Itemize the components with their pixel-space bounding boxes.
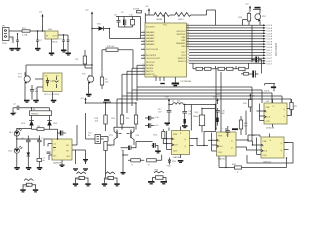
wire mid verticals down xyxy=(86,113,109,164)
resistor R21 xyxy=(126,115,138,129)
transistor VT7 top-right xyxy=(255,10,267,23)
svg-text:12: 12 xyxy=(142,70,144,72)
wire L1 rail xyxy=(169,105,215,133)
bus labels xyxy=(267,25,273,65)
flip-flop DD5 internals xyxy=(261,140,282,157)
capacitor C18b black xyxy=(184,117,186,127)
svg-text:TL/PS: TL/PS xyxy=(264,91,270,93)
capacitor C18 xyxy=(182,111,192,117)
svg-text:DL/AC88: DL/AC88 xyxy=(266,127,275,130)
resistor R12 horizontal xyxy=(102,46,133,72)
svg-text:2: 2 xyxy=(143,31,144,33)
svg-text:RB7/PGD: RB7/PGD xyxy=(177,34,186,36)
svg-text:36: 36 xyxy=(187,32,189,34)
svg-text:220V: 220V xyxy=(2,43,7,45)
ground under C26 xyxy=(155,150,161,153)
+5V arrow top-middle xyxy=(85,10,93,29)
svg-text:6: 6 xyxy=(143,43,144,45)
svg-text:33: 33 xyxy=(187,24,189,26)
svg-text:VDD: VDD xyxy=(167,166,172,168)
diode VD7 xyxy=(27,153,31,157)
svg-text:78L05: 78L05 xyxy=(52,42,58,44)
svg-text:240AF: 240AF xyxy=(105,178,112,181)
receiver box B2 xyxy=(88,133,101,144)
svg-text:RA2/AN2: RA2/AN2 xyxy=(146,37,155,40)
DD3 left feeders xyxy=(208,133,212,152)
capacitor C5 xyxy=(30,85,39,100)
svg-text:10k: 10k xyxy=(105,82,108,84)
flip-flop DD2 internals xyxy=(172,133,187,153)
ground under DA1 xyxy=(49,39,55,56)
svg-text:OSC: OSC xyxy=(153,75,158,77)
wire VCC feed at MCU top xyxy=(164,15,166,23)
long wire B xyxy=(132,68,262,106)
long wire D xyxy=(122,74,282,120)
fuse FU1 xyxy=(22,30,30,32)
svg-text:PRE: PRE xyxy=(173,134,178,136)
optocoupler U1 internals xyxy=(45,76,60,89)
flip-flop DD3 internals xyxy=(217,134,233,154)
svg-text:RD/RC4: RD/RC4 xyxy=(178,61,186,63)
transistor VT1 xyxy=(18,72,30,85)
wire HL1 chain down xyxy=(17,139,40,167)
svg-text:4n7/63: 4n7/63 xyxy=(133,9,140,11)
capacitor C2 xyxy=(36,40,42,48)
voltage regulator DA1 body xyxy=(45,31,58,39)
svg-text:CLK: CLK xyxy=(266,117,271,119)
svg-text:VCC: VCC xyxy=(163,24,168,26)
ground under C1 xyxy=(15,48,21,51)
ground under C3 xyxy=(61,50,67,53)
wire DD2-DD3 link xyxy=(194,132,216,146)
capacitor C10 xyxy=(129,15,135,28)
DD2 left feeders xyxy=(163,128,169,150)
bus wires from MCU to right connector xyxy=(187,25,264,63)
optocoupler U1 body xyxy=(43,73,62,92)
+5V arrow above R31 xyxy=(249,93,255,97)
svg-text:OSC1/CLKIN: OSC1/CLKIN xyxy=(146,49,158,51)
svg-text:RB1/RX: RB1/RX xyxy=(146,68,154,70)
capacitor C12 polarized mid xyxy=(103,99,111,102)
svg-text:35: 35 xyxy=(187,29,189,31)
svg-text:RA4/AN4: RA4/AN4 xyxy=(146,43,155,46)
wire to ground mid3 xyxy=(123,150,128,172)
svg-text:VDD: VDD xyxy=(251,135,256,137)
svg-text:IO-8.8: IO-8.8 xyxy=(267,44,273,46)
capacitor C9 polarized xyxy=(121,12,126,27)
svg-text:IO-2.7: IO-2.7 xyxy=(267,53,273,55)
wire VT1 emitter down + ground xyxy=(24,86,26,100)
connector XP1 xyxy=(2,26,10,46)
ground near DD3 xyxy=(232,128,238,130)
transistor VT2 xyxy=(82,74,94,86)
svg-text:7: 7 xyxy=(143,48,144,50)
svg-text:INT/RB0: INT/RB0 xyxy=(146,65,155,67)
wire top-right connections xyxy=(243,10,261,26)
svg-text:IO-1.8: IO-1.8 xyxy=(267,25,273,27)
svg-text:LA8069K: LA8069K xyxy=(53,162,62,165)
wire mid-bottom verticals xyxy=(76,150,86,164)
svg-text:RA1/AN1: RA1/AN1 xyxy=(146,34,155,37)
svg-text:37: 37 xyxy=(187,35,189,37)
DD2 pin wires xyxy=(167,127,194,159)
wire feeders under bus xyxy=(193,63,249,132)
svg-text:8: 8 xyxy=(143,54,144,56)
flip-flop DD4 internals xyxy=(264,106,285,123)
svg-text:RA3/AN3: RA3/AN3 xyxy=(146,40,155,43)
capacitor C26 right of VT4 xyxy=(136,142,158,151)
capacitor C23 horizontal bar xyxy=(264,84,276,93)
wire C4 left to ground xyxy=(12,108,14,113)
svg-text:HR0805: HR0805 xyxy=(31,114,39,116)
diode VD6 bottom xyxy=(168,158,176,165)
resistor R31 left of DD4 xyxy=(243,98,252,113)
svg-text:74AC/80: 74AC/80 xyxy=(173,156,182,159)
wire transistor pair connections xyxy=(108,127,137,148)
capacitor C16 xyxy=(158,109,171,116)
svg-text:15: 15 xyxy=(187,45,189,47)
IC DA2 body xyxy=(52,139,72,160)
resistor R18 xyxy=(94,115,107,131)
svg-text:VDD: VDD xyxy=(213,97,218,99)
capacitor C24 xyxy=(222,126,230,137)
svg-text:3n: 3n xyxy=(88,135,90,137)
ground bottom row2 a xyxy=(73,168,78,171)
wire right column risers xyxy=(252,25,262,73)
svg-text:11: 11 xyxy=(143,67,145,69)
long wire A xyxy=(137,65,252,141)
flip-flop DD2 body xyxy=(172,131,190,155)
resistor R26 top-right xyxy=(238,12,250,25)
wire VT2 connections xyxy=(85,68,92,94)
diode VD3 xyxy=(21,116,34,130)
svg-text:IO-3.7: IO-3.7 xyxy=(267,55,273,57)
wire C16 stub xyxy=(168,116,170,123)
svg-text:9: 9 xyxy=(143,57,144,59)
svg-text:IO-0.8: IO-0.8 xyxy=(267,47,273,49)
capacitor C4 left-mid xyxy=(13,104,23,115)
svg-text:38: 38 xyxy=(187,37,189,39)
diode VD4 xyxy=(47,116,58,130)
resistor R2 zigzag xyxy=(154,12,170,20)
capacitor C13 black column xyxy=(252,57,262,63)
svg-text:WR/RC5: WR/RC5 xyxy=(178,58,187,60)
svg-text:240AF: 240AF xyxy=(76,178,83,181)
svg-text:L/80.5: L/80.5 xyxy=(178,19,184,21)
svg-text:CLR: CLR xyxy=(173,151,178,153)
resistor R5 xyxy=(75,50,86,68)
capacitor C4b plus xyxy=(45,150,51,154)
capacitor C14 black pair xyxy=(145,116,160,121)
svg-text:RB2/TX: RB2/TX xyxy=(146,71,154,73)
wire crystal block to DA2 xyxy=(44,129,58,146)
ground under C18 xyxy=(182,125,188,128)
DD5 pin wires xyxy=(257,134,289,155)
svg-text:23: 23 xyxy=(187,57,189,59)
flip-flop DD4 body xyxy=(264,103,287,124)
IC DD1 microcontroller body xyxy=(145,23,192,83)
resistor R22 xyxy=(239,116,248,135)
IC DA2 internals xyxy=(53,144,71,159)
inductor L1 xyxy=(172,101,183,105)
svg-text:IO-4.7: IO-4.7 xyxy=(267,58,273,60)
svg-text:IO-2.8: IO-2.8 xyxy=(267,28,273,30)
resistor R8 horizontal pair xyxy=(193,67,216,70)
DD4 left feeders xyxy=(257,104,260,121)
wire cap cluster top rail xyxy=(116,17,141,28)
svg-text:XP2 SCART: XP2 SCART xyxy=(275,42,278,56)
wire C4 to B1 xyxy=(23,108,49,111)
resistor R6 horizontal xyxy=(32,126,50,131)
svg-text:34: 34 xyxy=(187,27,189,29)
ground under MCU xyxy=(172,83,180,87)
DD4 pin wires xyxy=(260,100,292,128)
ground under C2 xyxy=(35,48,41,51)
svg-text:OPT-1 OK/CNY4: OPT-1 OK/CNY4 xyxy=(44,94,60,96)
svg-text:MCLR/VPP: MCLR/VPP xyxy=(146,55,157,57)
wire led/caps rail xyxy=(17,129,40,140)
svg-text:OSC/CLKI: OSC/CLKI xyxy=(176,31,186,33)
wire fuse to DA1 xyxy=(9,31,45,43)
ground under C5 xyxy=(33,100,39,103)
svg-text:SCL/87/S: SCL/87/S xyxy=(146,26,155,28)
ground under C16 xyxy=(165,123,171,126)
+5V arrow above MCU xyxy=(145,6,150,15)
ground under DA2 xyxy=(60,160,65,167)
ground under opto xyxy=(51,92,57,103)
svg-text:PRE: PRE xyxy=(218,136,223,138)
svg-text:IO-7.8: IO-7.8 xyxy=(267,41,273,43)
wire DD4-DD5 column links xyxy=(245,111,247,136)
wire mid rail xyxy=(86,103,137,115)
capacitor C19b black xyxy=(216,115,218,126)
svg-text:CLR: CLR xyxy=(263,155,268,157)
ground mid row3 xyxy=(121,172,126,175)
bus arrowheads xyxy=(263,24,266,64)
svg-text:8MHz: 8MHz xyxy=(193,116,198,118)
svg-text:CLR: CLR xyxy=(218,152,223,154)
svg-text:CLK: CLK xyxy=(174,145,179,147)
svg-text:0.25A: 0.25A xyxy=(22,34,28,37)
capacitor C6 xyxy=(21,136,31,148)
flip-flop DD3 body xyxy=(217,132,237,156)
svg-text:CLR: CLR xyxy=(266,121,271,123)
svg-text:16: 16 xyxy=(187,48,189,50)
+5V arrow mid-left xyxy=(80,97,87,103)
svg-text:CLK: CLK xyxy=(219,146,224,148)
ground bottom row1 c xyxy=(37,167,43,170)
wire XP1 to fuse xyxy=(9,30,22,32)
receiver module B1 box xyxy=(30,109,52,116)
svg-text:10: 10 xyxy=(142,64,144,66)
ground bottom row1 b xyxy=(26,167,32,170)
svg-text:PIC16F84A: PIC16F84A xyxy=(181,80,192,83)
svg-text:PRE: PRE xyxy=(266,107,271,109)
LED HL1 xyxy=(9,128,22,139)
wire MCU left pin stubs xyxy=(122,32,145,74)
svg-text:25: 25 xyxy=(187,62,189,64)
capacitor C4a xyxy=(67,40,70,53)
wire left VCC riser xyxy=(141,13,146,39)
resistor R25 bottom chain xyxy=(147,155,162,167)
+5V arrow top-left xyxy=(39,12,44,20)
+5V arrow top-right xyxy=(245,4,251,13)
svg-text:RB4/AN11: RB4/AN11 xyxy=(176,42,186,45)
svg-text:R12 4k7: R12 4k7 xyxy=(107,46,115,48)
crystal ZQ4 bottom xyxy=(102,172,120,187)
svg-text:PQ4M: PQ4M xyxy=(24,186,30,188)
VDD arrow mid2 xyxy=(213,97,219,105)
crystal ZQ2 bottom xyxy=(20,179,38,193)
resistor R30 xyxy=(290,99,298,116)
ground under C4a xyxy=(66,53,72,56)
photodiode BL1 xyxy=(9,146,23,153)
wire MCU bottom pins xyxy=(156,77,175,83)
svg-text:IO-6.7: IO-6.7 xyxy=(267,63,273,65)
diode VD1 xyxy=(92,24,110,31)
transistor VT3 xyxy=(109,130,122,142)
flip-flop DD5 body xyxy=(261,137,284,158)
svg-text:IO-4.8: IO-4.8 xyxy=(267,33,273,35)
resistor R4 horizontal xyxy=(133,9,142,13)
svg-text:IO-3.8: IO-3.8 xyxy=(267,31,273,33)
svg-text:IO-5.8: IO-5.8 xyxy=(267,36,273,38)
svg-text:RA0/AN0: RA0/AN0 xyxy=(146,31,155,34)
ground bottom row1 a xyxy=(14,167,19,170)
capacitor C22 right column xyxy=(249,71,258,78)
ground under VT1 xyxy=(24,100,30,103)
long wire C xyxy=(127,71,272,113)
svg-text:PRE: PRE xyxy=(263,141,268,143)
capacitor C3 xyxy=(59,39,65,50)
ground under XP1 xyxy=(9,48,15,51)
wire into opto left xyxy=(26,65,43,100)
crystal ZQ1 xyxy=(193,109,215,133)
transistor VT4 xyxy=(127,130,141,142)
loop wire bottom xyxy=(219,156,287,168)
ground mid row1 xyxy=(83,159,88,162)
capacitor C11 polarized top-right xyxy=(253,7,261,10)
DD3 pin wires xyxy=(212,128,241,159)
resistor R20 xyxy=(111,115,123,129)
MCU pin numbers xyxy=(142,24,189,75)
wire DA2 pins xyxy=(48,125,86,160)
svg-text:39: 39 xyxy=(187,40,189,42)
ground under DD2 xyxy=(178,160,184,163)
capacitor C20 black xyxy=(121,146,134,153)
capacitor C8 xyxy=(114,15,121,28)
capacitor C19 xyxy=(215,108,225,115)
svg-text:3: 3 xyxy=(143,34,144,36)
svg-text:4: 4 xyxy=(143,37,144,39)
svg-text:IO-6.8: IO-6.8 xyxy=(267,39,273,41)
crystal ZQ5 bottom xyxy=(148,170,167,185)
ground left of C4 xyxy=(11,113,16,116)
svg-text:GB/8M: GB/8M xyxy=(156,19,163,21)
svg-text:17: 17 xyxy=(187,51,189,53)
resistor R3 zigzag xyxy=(175,12,191,20)
resistor R7 xyxy=(100,72,108,89)
wire DA1 out xyxy=(43,19,69,40)
svg-text:18: 18 xyxy=(187,54,189,56)
resistor R10 horizontal xyxy=(236,67,249,70)
wire diode to MCU area xyxy=(110,29,142,39)
svg-text:40: 40 xyxy=(187,43,189,45)
wire long rail y65 xyxy=(26,29,92,79)
ground under VT2 xyxy=(86,94,92,97)
capacitor C1 xyxy=(11,39,19,48)
capacitor C25 plus near DA2 xyxy=(57,129,66,136)
DD5 left feeders xyxy=(240,135,260,155)
svg-text:4n: 4n xyxy=(43,160,45,162)
long wire E xyxy=(117,99,291,127)
resistor R28 loop xyxy=(232,164,242,174)
resistor R19 xyxy=(104,142,113,178)
svg-text:CLK: CLK xyxy=(263,151,268,153)
capacitor C15 black pair xyxy=(145,123,159,128)
svg-text:IO-1.7: IO-1.7 xyxy=(267,50,273,52)
resistor R9 horizontal pair xyxy=(216,67,237,70)
svg-text:5: 5 xyxy=(143,40,144,42)
svg-text:RDY/OUT: RDY/OUT xyxy=(146,62,156,64)
ground bottom row2 b xyxy=(83,168,88,171)
ground under MCU 2 xyxy=(160,83,165,84)
svg-text:VDD: VDD xyxy=(165,97,170,99)
wire DD4 outputs right xyxy=(247,143,293,164)
resistor R27 small xyxy=(241,71,249,76)
capacitor C7 xyxy=(37,136,45,148)
resistor R24 bottom chain xyxy=(128,159,144,167)
crystal ZQ3 bottom xyxy=(73,172,91,187)
svg-text:13: 13 xyxy=(142,73,144,75)
capacitor C21 bottom xyxy=(37,158,45,163)
resistor R23 at DD2 xyxy=(153,129,166,144)
wire top rail above MCU xyxy=(145,10,215,25)
svg-text:OSC2/CLKOUT: OSC2/CLKOUT xyxy=(146,58,161,60)
VDD arrow mid1 xyxy=(165,97,171,105)
